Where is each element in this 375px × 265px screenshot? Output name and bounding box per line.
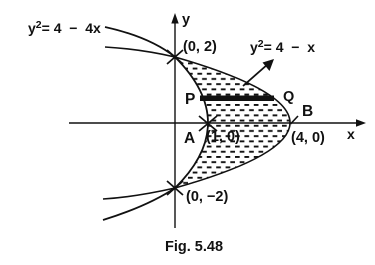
svg-text:y: y — [182, 12, 190, 28]
svg-text:B: B — [302, 103, 313, 120]
svg-text:(0, 2): (0, 2) — [183, 39, 217, 55]
svg-text:(4, 0): (4, 0) — [291, 130, 325, 146]
svg-text:x: x — [347, 126, 355, 142]
svg-text:(1, 0): (1, 0) — [206, 129, 240, 145]
svg-text:Fig. 5.48: Fig. 5.48 — [165, 239, 223, 255]
svg-text:Q: Q — [283, 89, 294, 105]
svg-text:(0, −2): (0, −2) — [186, 189, 228, 205]
svg-text:A: A — [184, 130, 195, 147]
svg-text:P: P — [185, 91, 195, 108]
